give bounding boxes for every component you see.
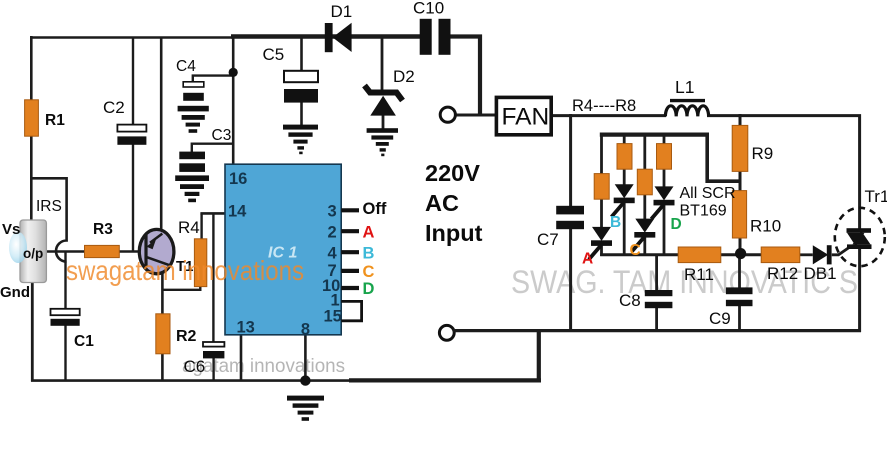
- wire branch B lower: [623, 201, 626, 256]
- svg-text:15: 15: [324, 308, 342, 326]
- svg-text:o/p: o/p: [23, 246, 43, 261]
- capacitor C1: [51, 309, 80, 326]
- svg-text:D: D: [363, 280, 375, 298]
- wire R11 to node: [721, 253, 742, 256]
- svg-text:L1: L1: [675, 77, 694, 97]
- zener diode D2: [365, 86, 403, 116]
- FAN box: [496, 97, 551, 134]
- wire C9 lower stem: [738, 306, 741, 331]
- wire top rail right segment to C10: [231, 34, 421, 39]
- wire C1 top stem: [64, 252, 66, 310]
- wire bottom rail: [31, 379, 351, 382]
- wire branch D lower: [663, 204, 666, 257]
- resistor R4: [194, 239, 206, 287]
- wire R3 to T1 base: [119, 250, 147, 253]
- svg-text:Input: Input: [425, 220, 483, 246]
- wire R12 to DB1: [800, 253, 813, 256]
- wire AC terminal 1 to FAN: [455, 114, 497, 117]
- ground below C5: [283, 125, 318, 155]
- svg-text:A: A: [582, 251, 593, 268]
- capacitor C7: [556, 206, 584, 229]
- triac Tr1 symbol: [847, 228, 872, 249]
- inductor L1: [665, 101, 708, 117]
- pin 10 stub: [341, 286, 359, 290]
- svg-text:C3: C3: [212, 127, 232, 144]
- svg-text:swagatam innovations: swagatam innovations: [66, 255, 304, 286]
- svg-text:C9: C9: [709, 309, 731, 328]
- resistor R7 (branch C): [637, 169, 652, 195]
- wire C2 bottom stem: [132, 144, 134, 251]
- wire FAN to L1: [550, 114, 666, 117]
- resistor R10: [732, 191, 746, 238]
- junction node R10/R11/R12/C9: [735, 248, 746, 259]
- svg-text:R2: R2: [176, 328, 197, 345]
- svg-text:AC: AC: [425, 190, 459, 216]
- wire branch A upper: [600, 133, 603, 174]
- wire elbow to right rail: [537, 331, 541, 382]
- pin 2 stub: [341, 229, 359, 233]
- svg-text:R3: R3: [93, 221, 113, 238]
- svg-text:Vs: Vs: [2, 221, 20, 238]
- SCR C: [632, 219, 655, 252]
- diac DB1: [813, 245, 832, 264]
- wire bus elbow to R9/R10 node: [707, 136, 740, 181]
- wire top rail left: [30, 36, 233, 39]
- resistor R1: [25, 100, 39, 136]
- svg-text:C10: C10: [413, 0, 444, 18]
- svg-text:14: 14: [228, 203, 247, 221]
- wire R10 to node: [739, 238, 742, 256]
- wire sensor gnd down: [31, 278, 34, 382]
- wire C9 upper stem: [738, 255, 741, 288]
- wire pin14 down to R4: [200, 213, 202, 239]
- svg-text:220V: 220V: [425, 160, 480, 186]
- svg-text:16: 16: [229, 170, 247, 188]
- wire R4 to emitter node: [162, 285, 200, 290]
- triac Tr1 dashed circle: [835, 208, 885, 266]
- wire pin8 down: [304, 334, 307, 381]
- capacitor C10: [420, 19, 451, 55]
- junction node pin8/gnd: [300, 375, 310, 385]
- svg-text:3: 3: [328, 202, 337, 220]
- wire SCR bottom bus: [600, 253, 679, 256]
- pin 3 stub: [341, 208, 359, 212]
- svg-text:R12: R12: [767, 264, 798, 283]
- resistor R11: [678, 247, 721, 263]
- wire branch B mid: [623, 169, 626, 185]
- op-amp IC1 body: [225, 164, 341, 335]
- svg-text:A: A: [363, 224, 375, 242]
- wire C4 branch: [193, 76, 233, 82]
- wire branch A mid: [600, 199, 603, 229]
- wire pin16 vertical: [232, 35, 235, 166]
- wire C6 bottom stem: [212, 358, 214, 381]
- wire o/p to R3: [46, 250, 86, 253]
- wire SCR top bus: [600, 133, 709, 137]
- svg-text:C6: C6: [184, 357, 206, 376]
- wire C7 branch upper: [569, 114, 572, 206]
- svg-text:B: B: [610, 214, 621, 231]
- wire right rail below triac: [858, 247, 861, 332]
- wire C8 upper stem: [655, 255, 658, 290]
- wire C5 top stem: [300, 37, 303, 72]
- svg-text:8: 8: [301, 321, 310, 339]
- resistor R5 (branch A): [594, 174, 609, 200]
- svg-text:C: C: [630, 242, 641, 259]
- svg-text:R9: R9: [752, 144, 774, 163]
- svg-text:C1: C1: [74, 333, 94, 350]
- svg-text:R4----R8: R4----R8: [572, 97, 636, 115]
- wire branch C lower: [643, 236, 646, 257]
- wire branch B upper: [623, 133, 626, 144]
- wire C8 lower stem: [655, 308, 658, 331]
- svg-text:Gnd: Gnd: [0, 284, 30, 301]
- resistor R9: [732, 125, 748, 171]
- capacitor C6: [203, 342, 224, 358]
- wire branch D upper: [663, 133, 666, 144]
- AC terminal circle top: [440, 107, 455, 122]
- SCR D: [651, 186, 674, 219]
- wire left rail: [30, 36, 33, 221]
- LEFT COMPONENTS: [9, 19, 455, 421]
- pin 7 stub: [341, 269, 359, 273]
- resistor R12: [761, 247, 800, 263]
- resistor R6 (branch B): [617, 144, 632, 170]
- SCR A: [589, 227, 612, 260]
- resistor R8 (branch D): [657, 144, 672, 170]
- svg-text:Off: Off: [363, 200, 387, 218]
- svg-text:C: C: [363, 263, 375, 281]
- svg-text:Tr1: Tr1: [865, 187, 887, 206]
- IC: [225, 164, 387, 338]
- capacitor C9: [726, 287, 753, 306]
- resistor R2: [156, 314, 170, 354]
- svg-text:B: B: [363, 245, 375, 263]
- RIGHT WIRES: [453, 114, 861, 332]
- SCR B: [612, 184, 635, 217]
- wire bottom rail thick: [349, 378, 541, 382]
- capacitor C3: [175, 152, 209, 203]
- IR sensor dome: [9, 232, 27, 263]
- wire T1 emitter to R2: [161, 266, 164, 315]
- wire pin13 down: [240, 334, 243, 381]
- wire T1 collector up: [160, 37, 163, 233]
- diode D1: [325, 23, 352, 52]
- svg-text:2: 2: [328, 223, 337, 241]
- svg-text:C5: C5: [263, 45, 285, 64]
- svg-text:C4: C4: [176, 58, 196, 75]
- RIGHT COMPONENTS: [496, 97, 884, 308]
- pin 4 stub: [341, 250, 359, 254]
- WATERMARKS: [182, 264, 858, 377]
- svg-text:agatam innovations: agatam innovations: [182, 356, 345, 377]
- wire bottom right rail: [453, 329, 861, 332]
- svg-text:D2: D2: [393, 67, 415, 86]
- IR sensor IRS body: [20, 220, 46, 283]
- wire IRS bracket: [31, 178, 67, 261]
- ground below pin 8: [287, 396, 324, 421]
- wire D2 to ground: [382, 115, 385, 130]
- wire D2 branch: [381, 37, 384, 92]
- svg-text:C7: C7: [537, 230, 559, 249]
- svg-text:13: 13: [237, 319, 255, 337]
- wire pin14 stub: [200, 212, 225, 215]
- svg-text:R10: R10: [750, 217, 781, 236]
- svg-text:R4: R4: [178, 218, 200, 237]
- AC terminal circle bottom: [439, 325, 454, 340]
- wire branch D mid: [663, 169, 666, 187]
- LEFT WIRES: [30, 35, 541, 382]
- svg-text:R1: R1: [45, 112, 65, 129]
- wire L1 to right corner: [707, 116, 860, 229]
- pin 1-15 bracket: [341, 301, 361, 320]
- wire below R2: [161, 353, 164, 381]
- wire C7 branch lower: [569, 229, 572, 332]
- wire branch A lower: [600, 244, 603, 256]
- wire C2 top stem: [132, 37, 134, 126]
- wire C1 bottom stem: [64, 325, 66, 381]
- wire R9 to R10: [739, 171, 742, 191]
- svg-text:FAN: FAN: [502, 104, 550, 131]
- svg-text:D1: D1: [331, 2, 353, 21]
- svg-text:C8: C8: [619, 291, 641, 310]
- wire branch C mid: [643, 194, 646, 219]
- wire C3 branch: [192, 144, 233, 152]
- transistor T1: [139, 229, 174, 273]
- junction node C4/pin16: [229, 68, 238, 77]
- wire node to R12: [741, 253, 762, 256]
- svg-text:C2: C2: [103, 98, 125, 117]
- capacitor C8: [645, 290, 673, 308]
- capacitor C5: [284, 71, 318, 103]
- wire C6 branch down: [212, 213, 214, 342]
- svg-text:All SCR: All SCR: [680, 185, 736, 202]
- wire R9 top stub: [739, 114, 742, 126]
- svg-text:DB1: DB1: [804, 264, 837, 283]
- svg-text:IRS: IRS: [36, 198, 62, 215]
- svg-text:4: 4: [328, 244, 338, 262]
- wire branch C upper: [643, 133, 646, 170]
- svg-text:BT169: BT169: [680, 203, 727, 220]
- capacitor C4: [178, 82, 209, 133]
- capacitor C2: [117, 125, 146, 145]
- wire DB1 to triac gate: [832, 247, 850, 255]
- wire C5 bottom stem: [300, 103, 303, 127]
- wire C10 to corner: [450, 37, 480, 115]
- ground below D2: [367, 128, 398, 156]
- svg-text:R11: R11: [684, 265, 714, 284]
- resistor R3: [85, 245, 120, 257]
